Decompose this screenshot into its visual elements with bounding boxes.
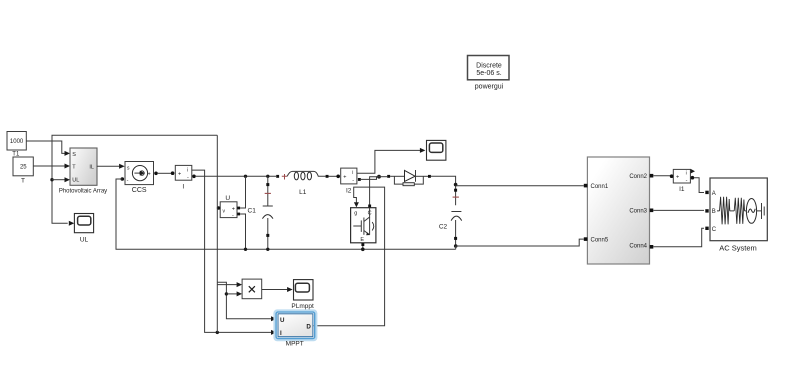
wire I1 to AC System A [694,178,704,193]
wire U signal vertical [216,135,218,332]
arrowhead into UL scope [69,221,75,226]
junction node after I2 [377,175,381,179]
svg-text:IL: IL [89,164,94,170]
multiply block [242,279,262,299]
svg-text:UL: UL [80,237,89,244]
scope UL [74,214,93,233]
svg-text:U: U [225,195,230,202]
svg-text:5e-06 s.: 5e-06 s. [476,70,501,77]
constant block T value 25 [13,157,33,176]
svg-text:Conn4: Conn4 [629,244,647,250]
port square AC B [705,209,708,212]
svg-text:i: i [187,167,188,173]
current measurement I [175,165,192,180]
port square Conn4 [650,245,654,249]
svg-text:-: - [686,177,688,183]
svg-text:-: - [352,178,354,184]
wire diode to C2 node [431,176,456,205]
arrowhead into PV UL port [65,177,71,182]
port dot I plus [171,171,175,175]
wire CCS minus loop to bottom rail [116,179,456,249]
port square Conn1 [584,184,588,188]
arrowhead into MPPT I [271,330,277,335]
wire Conn2 to I1 [653,175,670,177]
wire node to Conn5 [456,239,584,246]
port dot I2 plus [336,175,340,179]
svg-text:25: 25 [20,164,27,170]
arrowhead into CCS s port [119,164,125,169]
svg-text:CCS: CCS [132,187,147,194]
wire junction to diode [379,176,387,178]
arrowhead into T port [65,164,71,169]
diode D [387,170,431,186]
port square I2 minus [358,178,361,181]
svg-text:-: - [127,178,129,184]
port dot CCS minus [121,177,125,181]
arrowhead into multiply top input [237,282,243,287]
svg-text:Discrete: Discrete [476,62,502,69]
port square IGBT E [361,243,364,246]
port square IGBT C [368,205,371,208]
wire T1-to-S [26,141,64,153]
port square U minus [237,213,240,216]
svg-text:+: + [232,206,235,212]
svg-text:I: I [280,330,282,337]
wire top rail I-minus to L1 [196,175,276,177]
wire junction to IGBT collector [370,177,379,205]
voltage measurement U [220,202,237,219]
wire multiply output to PLmppt [262,289,288,291]
svg-text:+: + [343,175,346,181]
svg-text:+: + [148,172,151,178]
constant block T1 value 1000 [7,132,26,151]
svg-text:UL: UL [72,178,79,184]
svg-text:S: S [72,152,76,158]
svg-text:AC System: AC System [719,244,757,253]
wire Conn3 to AC System B [653,209,704,211]
junction multiply bottom branch [225,292,228,295]
arrowhead into MPPT U [271,316,277,321]
svg-text:g: g [354,210,357,216]
junction top rail at U tap [244,175,247,178]
svg-text:I2: I2 [346,187,352,194]
svg-text:+: + [676,175,679,181]
svg-text:+: + [178,172,181,178]
unconnected i output stub on I1 [691,169,695,174]
port square Conn3 [650,209,654,213]
port dot U v-output [217,206,221,210]
svg-text:Conn1: Conn1 [591,184,609,190]
wire U minus to bottom rail [240,214,245,249]
svg-text:-: - [232,213,234,219]
junction C2 bottom node [454,244,458,248]
subsystem AC System [710,178,767,241]
port square AC C [705,227,708,230]
svg-text:C: C [712,227,717,233]
junction top rail at C1 [266,175,269,178]
svg-text:E: E [360,237,364,243]
wire Conn4 to AC System C [653,228,704,247]
wire bottom rail riser at C2 [455,246,457,249]
scope (current display) [427,140,446,160]
current measurement I2 [341,168,357,184]
svg-text:PLmppt: PLmppt [291,303,314,310]
svg-text:B: B [712,209,716,215]
svg-text:i: i [352,170,353,176]
svg-text:MPPT: MPPT [286,340,304,347]
junction on MPPT I line [216,331,219,334]
subsystem three-phase bridge [587,157,649,264]
subsystem Photovoltaic Array [70,148,97,185]
capacitor C2 [451,189,462,246]
scope PLmppt [294,280,314,300]
wire CCS plus to I plus [157,172,171,174]
junction bottom rail at U tap [244,248,247,251]
wire T-to-Tport [33,165,64,167]
svg-text:Conn5: Conn5 [591,237,609,243]
junction C2 top node [454,183,458,187]
wire U branch jog to multiply bottom input and MPPT U [217,282,271,319]
svg-text:D: D [306,323,311,330]
current measurement I1 [673,169,690,183]
svg-text:C2: C2 [439,223,448,230]
powergui block [468,56,510,80]
svg-text:C1: C1 [248,207,257,214]
subsystem MPPT selected [275,311,317,340]
svg-text:T: T [21,178,25,185]
junction UL-branch [50,178,53,181]
port dot I1 minus [691,176,695,180]
wire PV IL to CCS s [97,165,120,167]
arrowhead into PLmppt [287,287,293,292]
controlled current source CCS [125,162,154,185]
svg-text:L1: L1 [299,189,307,196]
port square Conn5 [584,237,588,241]
junction bottom rail at IGBT E [361,248,365,252]
svg-text:I1: I1 [679,186,685,193]
arrowhead into S port [65,151,71,156]
svg-text:Photovoltaic Array: Photovoltaic Array [59,189,107,195]
svg-text:Conn3: Conn3 [629,209,647,215]
svg-text:1000: 1000 [10,139,24,145]
wire node to Conn1 [456,185,584,187]
wire MPPT D to IGBT g [314,187,385,326]
svg-text:-: - [187,175,189,181]
wire I2 i-output to scope [357,150,420,173]
port dot CCS plus [154,172,158,176]
wire U plus to top rail [240,176,245,208]
port dot I minus [192,175,196,179]
svg-text:powergui: powergui [475,83,504,90]
arrowhead into IGBT g [354,202,359,207]
wire I2 minus to junction [361,177,379,180]
port square AC A [705,191,708,194]
port dot I1 plus [670,174,674,178]
capacitor C1 [262,176,273,249]
wire U branch to multiply top input [217,284,237,286]
port square U plus [237,207,240,210]
wire to multiply bottom input [226,293,236,295]
port square Conn2 [650,174,654,178]
inductor L1 [276,171,328,180]
IGBT block [351,206,376,243]
svg-text:Conn2: Conn2 [629,174,647,180]
svg-text:I: I [182,184,184,191]
svg-text:U: U [280,317,285,324]
junction bottom rail at C1 [266,248,269,251]
wire IGBT E to bottom rail [362,246,364,249]
svg-text:i: i [686,171,687,177]
wire L1 to I2 [329,175,338,177]
svg-text:T1: T1 [12,151,20,157]
svg-text:A: A [712,191,716,197]
wire UL-branch to PV UL port [52,179,65,181]
wire I i-output down (I signal) [192,170,271,332]
arrowhead into multiply bottom input [237,291,243,296]
arrowhead into scope [420,148,426,153]
wire UL feedback horizontal top [52,135,217,223]
